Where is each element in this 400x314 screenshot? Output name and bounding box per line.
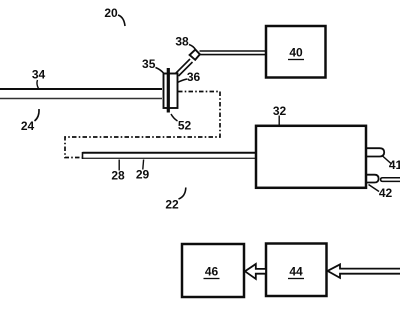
label 35	[142, 57, 164, 74]
box 46	[182, 244, 244, 297]
svg-text:34: 34	[32, 68, 46, 82]
label 42	[369, 185, 393, 201]
dash-dot fiber routing path	[65, 92, 220, 158]
label 36	[178, 70, 201, 84]
label 29	[136, 160, 150, 182]
svg-text:44: 44	[289, 265, 303, 279]
connector 38 (diamond)	[190, 50, 200, 60]
svg-text:35: 35	[142, 57, 156, 71]
box 44	[266, 244, 327, 297]
coupler body 36	[164, 74, 178, 109]
svg-text:29: 29	[136, 168, 150, 182]
svg-text:41: 41	[389, 158, 400, 172]
label 46	[204, 265, 220, 279]
box 40	[266, 26, 326, 78]
label 40	[288, 46, 304, 60]
label 28	[111, 160, 125, 183]
tube 34 (delivery tube)	[0, 89, 162, 99]
svg-text:42: 42	[379, 186, 393, 200]
svg-text:38: 38	[175, 35, 189, 49]
svg-text:46: 46	[205, 265, 219, 279]
tube 28/29	[83, 152, 256, 159]
label 24	[21, 109, 39, 133]
svg-text:52: 52	[178, 119, 192, 133]
svg-text:28: 28	[111, 169, 125, 183]
label 20	[104, 6, 125, 26]
svg-text:24: 24	[21, 119, 35, 133]
open arrow from right into 44	[328, 264, 400, 278]
box 32	[256, 126, 366, 188]
fiber bar 35	[167, 68, 170, 113]
connector tab 41	[367, 148, 385, 156]
label 38	[175, 35, 195, 51]
label 44	[288, 265, 304, 279]
fiber line to box 40	[200, 51, 266, 55]
svg-text:40: 40	[289, 46, 303, 60]
label 32	[273, 104, 287, 125]
svg-text:22: 22	[165, 198, 179, 212]
open arrow from 44 to 46	[245, 264, 266, 279]
label 34	[32, 68, 46, 89]
diagonal fiber to connector	[176, 59, 193, 76]
output fiber at 42	[381, 178, 400, 182]
connector tab 42	[367, 175, 379, 183]
label 41	[382, 156, 400, 173]
svg-text:20: 20	[104, 6, 118, 20]
svg-text:36: 36	[187, 70, 201, 84]
label 52	[171, 114, 191, 133]
label 22	[165, 188, 185, 212]
